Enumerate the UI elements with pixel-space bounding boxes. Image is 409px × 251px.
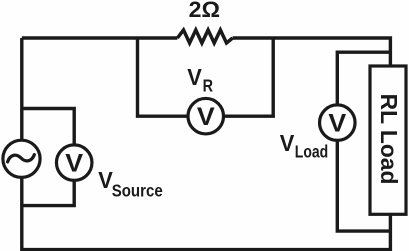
svg-text:V: V [280,130,295,156]
svg-text:RL Load: RL Load [376,94,402,185]
svg-text:V: V [187,64,202,90]
svg-text:Load: Load [295,143,328,162]
svg-text:R: R [203,76,214,96]
svg-text:V: V [197,104,216,131]
svg-text:V: V [65,150,84,177]
svg-text:V: V [98,167,113,193]
svg-text:2Ω: 2Ω [189,0,220,22]
svg-text:Source: Source [112,181,163,200]
svg-text:V: V [328,110,347,137]
